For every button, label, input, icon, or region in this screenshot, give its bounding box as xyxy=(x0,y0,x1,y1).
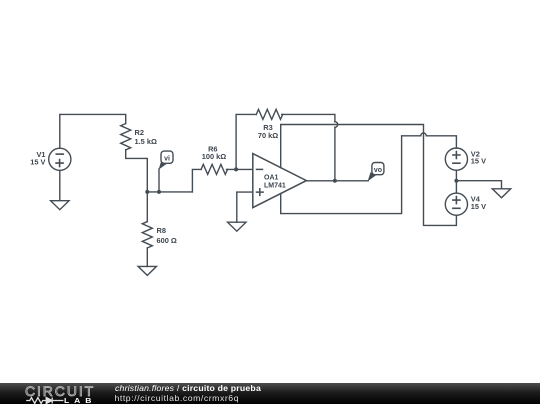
svg-text:15 V: 15 V xyxy=(30,158,45,167)
wire op-amp V+ pin to V4 bottom xyxy=(281,125,457,226)
ground under op-amp xyxy=(228,222,246,231)
wire R2 bottom jog to node vi xyxy=(126,150,148,192)
voltage source V1 xyxy=(49,148,71,170)
footer line 2 xyxy=(115,394,240,403)
label V2 value xyxy=(471,149,486,165)
voltage source V4 xyxy=(445,193,467,215)
label R6 value xyxy=(202,144,226,161)
wire to V2 top xyxy=(426,136,456,148)
CircuitLab logo CIRCUIT xyxy=(25,386,95,397)
wire R8 to ground xyxy=(146,248,148,267)
svg-text:70 kΩ: 70 kΩ xyxy=(258,131,278,140)
resistor R8 xyxy=(142,222,152,248)
flag vi xyxy=(159,151,173,170)
label V1 value xyxy=(30,150,45,166)
label R8 value xyxy=(157,226,177,245)
junction node under R2 xyxy=(145,190,149,194)
wire R3 to output with hop over supply wire xyxy=(282,114,335,121)
svg-text:100 kΩ: 100 kΩ xyxy=(202,152,226,161)
resistor R2 xyxy=(121,124,131,150)
wire V1 top to R2 xyxy=(60,114,126,148)
CircuitLab logo LAB xyxy=(64,396,96,405)
flag vo xyxy=(368,163,384,182)
svg-text:R8: R8 xyxy=(157,226,166,235)
footer bar xyxy=(0,383,540,404)
svg-text:OA1: OA1 xyxy=(264,174,279,181)
resistor R6 xyxy=(201,164,227,174)
footer line 1 xyxy=(115,384,261,393)
svg-text:R2: R2 xyxy=(135,128,144,137)
label OA1 LM741 xyxy=(264,174,286,189)
label V4 value xyxy=(471,194,486,210)
wire op-amp output xyxy=(306,180,368,182)
ground under R8 xyxy=(138,266,156,275)
label R3 value xyxy=(258,123,278,140)
svg-text:15 V: 15 V xyxy=(471,202,486,211)
junction node inverting input xyxy=(234,167,238,171)
wire vi node up to flag xyxy=(158,169,160,192)
svg-text:15 V: 15 V xyxy=(471,157,486,166)
wire feedback up to R3 xyxy=(236,114,256,169)
svg-text:600 Ω: 600 Ω xyxy=(157,236,177,245)
wire hop over supply crossing xyxy=(421,133,427,136)
wire vi net horizontal xyxy=(147,191,192,193)
ground under V1 xyxy=(51,201,69,210)
label R2 value xyxy=(135,128,157,146)
wire op-amp V- pin down xyxy=(281,136,421,214)
voltage source V2 xyxy=(445,148,467,170)
svg-text:1.5 kΩ: 1.5 kΩ xyxy=(135,137,157,146)
wire junction to ground right xyxy=(456,181,501,189)
junction node between V2 and V4 xyxy=(454,179,458,183)
junction node output xyxy=(333,179,337,183)
svg-text:vi: vi xyxy=(164,156,170,163)
wire junction to R8 xyxy=(146,192,148,222)
wire R6 to op-amp inverting input xyxy=(227,168,253,170)
wire vi to R6 xyxy=(192,169,201,192)
ground right of sources xyxy=(492,189,510,198)
wire V1 bottom to ground xyxy=(59,170,61,200)
svg-text:LM741: LM741 xyxy=(264,182,286,189)
resistor R3 xyxy=(256,109,282,119)
op-amp OA1 xyxy=(253,154,307,208)
junction node vi xyxy=(157,190,161,194)
wire V2 bottom to V4 top xyxy=(455,170,457,193)
svg-text:vo: vo xyxy=(374,167,382,174)
wire + input to ground xyxy=(237,192,253,222)
CircuitLab logo doodle xyxy=(25,394,67,405)
